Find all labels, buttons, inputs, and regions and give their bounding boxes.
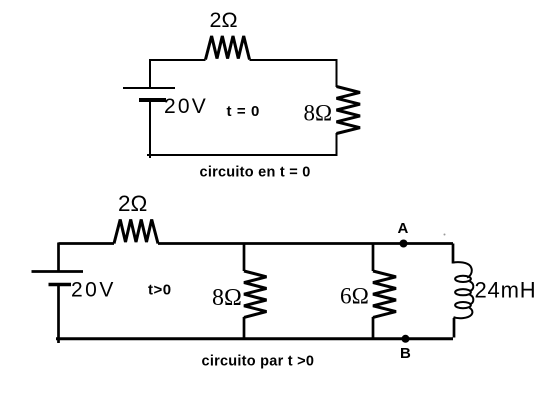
svg-text:2Ω: 2Ω [118, 191, 147, 216]
svg-text:24mH: 24mH [475, 278, 537, 303]
svg-text:t>0: t>0 [148, 282, 172, 299]
svg-text:2Ω: 2Ω [210, 8, 238, 32]
svg-text:20V: 20V [71, 279, 116, 302]
svg-text:A: A [398, 220, 409, 237]
svg-text:8Ω: 8Ω [304, 101, 333, 126]
svg-text:6Ω: 6Ω [340, 284, 369, 310]
svg-text:8Ω: 8Ω [212, 285, 242, 311]
svg-text:t = 0: t = 0 [227, 103, 260, 120]
svg-text:B: B [400, 345, 411, 362]
svg-text:circuito en t = 0: circuito en t = 0 [200, 164, 311, 180]
svg-text:circuito par t >0: circuito par t >0 [202, 354, 315, 370]
svg-text:20V: 20V [164, 95, 208, 118]
